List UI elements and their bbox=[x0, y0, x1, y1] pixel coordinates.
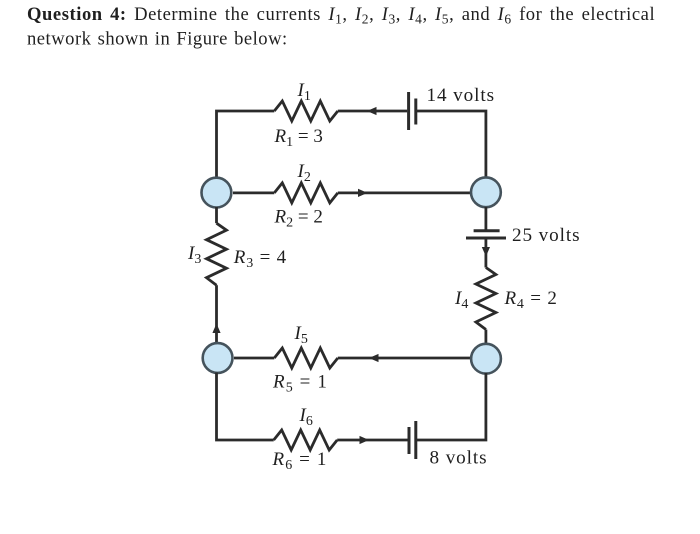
wire: row3 right segment bbox=[338, 357, 470, 360]
resistor R5 bbox=[274, 348, 338, 368]
battery B2 25V short plate bbox=[474, 229, 500, 232]
battery B1 14V long plate bbox=[407, 92, 410, 130]
wire: bottom right segment + right vertical lower bbox=[416, 373, 486, 440]
current arrow I6 pointing right bbox=[360, 436, 370, 444]
resistor R4 bbox=[476, 268, 496, 330]
svg-text:I1: I1 bbox=[297, 80, 311, 104]
battery B3 8V long plate bbox=[414, 421, 417, 459]
svg-text:network shown in Figure below:: network shown in Figure below: bbox=[27, 29, 288, 50]
wire: row3 left stub from node bbox=[234, 357, 274, 360]
current arrow I5 pointing left bbox=[369, 354, 379, 362]
current arrow I2 pointing right bbox=[358, 189, 368, 197]
current arrow I4 pointing down bbox=[482, 247, 490, 257]
battery B3 8V short plate bbox=[408, 427, 411, 454]
wire: top middle segment bbox=[338, 110, 407, 113]
svg-text:R2 = 2: R2 = 2 bbox=[274, 207, 323, 231]
current arrow I1 pointing left bbox=[367, 107, 377, 115]
svg-text:I4: I4 bbox=[454, 288, 468, 312]
svg-text:14 volts: 14 volts bbox=[427, 85, 496, 106]
node upper-left bbox=[202, 178, 232, 208]
svg-text:I6: I6 bbox=[299, 405, 313, 429]
svg-text:I5: I5 bbox=[294, 323, 308, 347]
wire: left vertical node1 to R3 bbox=[215, 207, 218, 223]
resistor R1 bbox=[274, 101, 338, 121]
resistor R6 bbox=[274, 430, 338, 450]
wire: left vertical lower + bottom left segment bbox=[217, 373, 274, 441]
svg-text:I2: I2 bbox=[297, 161, 311, 185]
svg-text:R1 = 3: R1 = 3 bbox=[274, 126, 323, 150]
resistor R2 bbox=[274, 183, 338, 203]
svg-text:25 volts: 25 volts bbox=[512, 225, 581, 246]
wire: right vertical R4 to node4 bbox=[484, 330, 487, 346]
wire: row2 left stub from node bbox=[233, 191, 274, 194]
wire: top right segment + right vertical upper bbox=[416, 111, 486, 179]
battery B1 14V short plate bbox=[414, 99, 417, 125]
wire: left vertical R3 to node2 bbox=[215, 285, 218, 344]
wire: right vertical node3 to battery bbox=[484, 207, 487, 230]
battery B2 25V long plate bbox=[466, 237, 506, 240]
svg-text:R6 = 1: R6 = 1 bbox=[272, 449, 328, 473]
node upper-right bbox=[471, 177, 501, 207]
svg-text:R4 = 2: R4 = 2 bbox=[504, 288, 558, 312]
node lower-right bbox=[471, 344, 501, 374]
svg-text:Question 4: Determine the curr: Question 4: Determine the currents I1, I… bbox=[27, 4, 655, 27]
wire: right vertical battery to R4 bbox=[484, 239, 487, 268]
svg-text:R3 = 4: R3 = 4 bbox=[233, 247, 287, 271]
wire: bottom middle segment bbox=[337, 439, 407, 442]
svg-text:R5 = 1: R5 = 1 bbox=[272, 372, 328, 396]
node lower-left bbox=[203, 343, 233, 373]
resistor R3 bbox=[207, 223, 227, 285]
svg-text:I3: I3 bbox=[187, 243, 201, 267]
svg-text:8 volts: 8 volts bbox=[430, 448, 488, 469]
current arrow I3 pointing up bbox=[212, 324, 220, 334]
wire: row2 right segment bbox=[338, 191, 470, 194]
wire: left vertical upper + top wire left segment bbox=[217, 111, 275, 179]
